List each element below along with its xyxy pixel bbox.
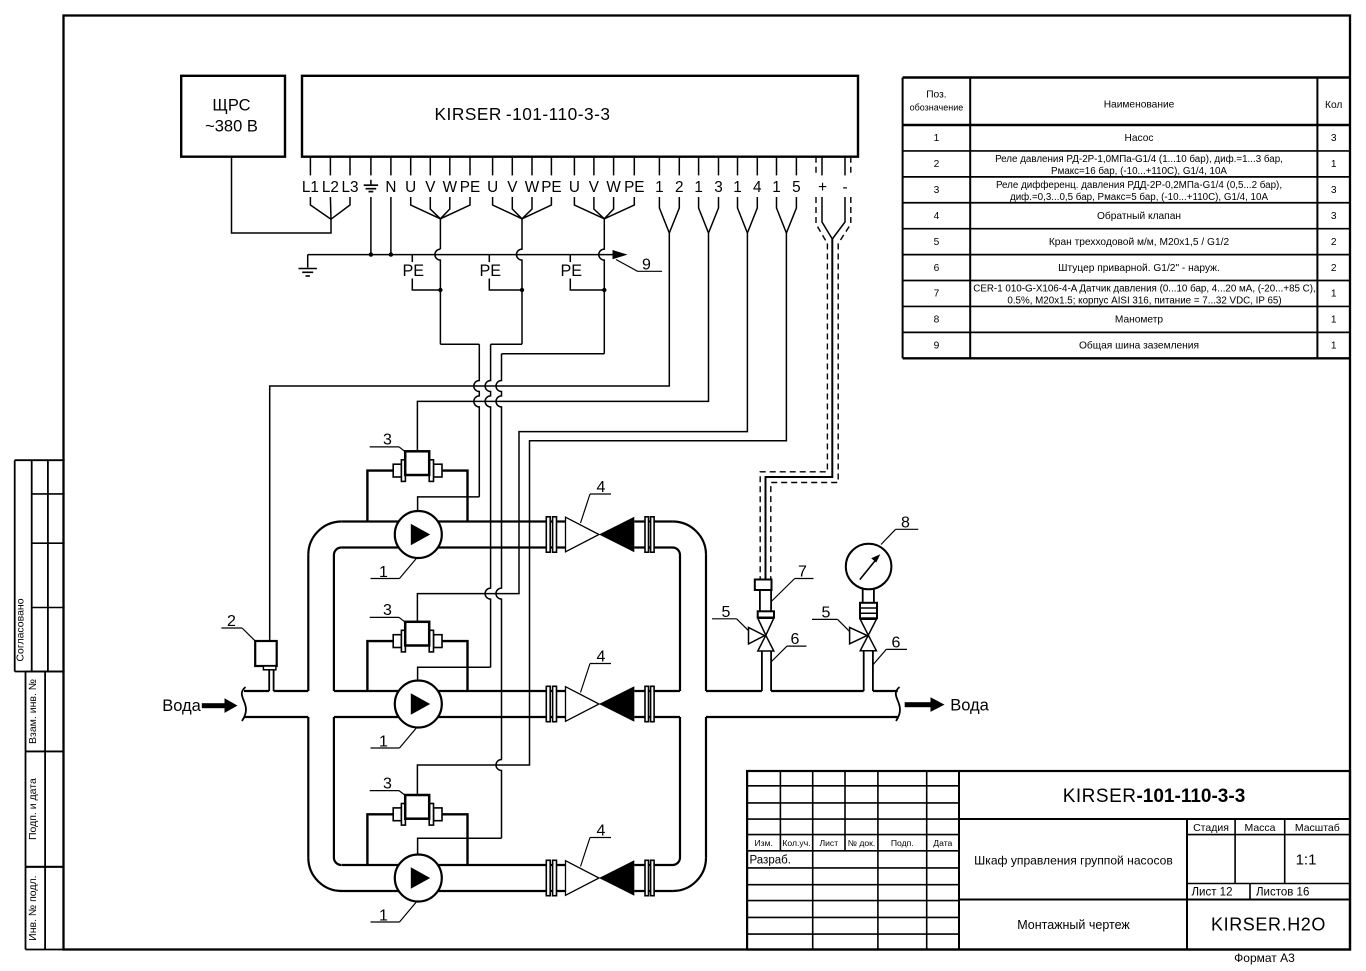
svg-text:Стадия: Стадия bbox=[1193, 822, 1229, 834]
svg-text:Подп. и дата: Подп. и дата bbox=[27, 778, 39, 840]
svg-text:6: 6 bbox=[892, 635, 901, 652]
svg-text:4: 4 bbox=[753, 179, 762, 196]
svg-text:Реле дифференц. давления РДД-2: Реле дифференц. давления РДД-2Р-0,2МПа-G… bbox=[996, 180, 1282, 191]
svg-text:W: W bbox=[525, 179, 540, 196]
svg-text:обозначение: обозначение bbox=[910, 103, 964, 113]
svg-text:3: 3 bbox=[714, 179, 723, 196]
svg-text:2: 2 bbox=[1331, 237, 1337, 248]
svg-text:Масса: Масса bbox=[1244, 822, 1275, 834]
svg-text:Листов 16: Листов 16 bbox=[1256, 886, 1309, 898]
svg-text:W: W bbox=[443, 179, 458, 196]
svg-text:Разраб.: Разраб. bbox=[750, 854, 791, 866]
svg-text:1: 1 bbox=[772, 179, 781, 196]
svg-text:5: 5 bbox=[822, 605, 831, 622]
svg-text:PE: PE bbox=[560, 262, 582, 280]
svg-text:V: V bbox=[589, 179, 600, 196]
svg-text:L1: L1 bbox=[302, 179, 319, 196]
svg-text:Реле давления РД-2Р-1,0МПа-G1/: Реле давления РД-2Р-1,0МПа-G1/4 (1...10 … bbox=[995, 154, 1283, 165]
svg-text:7: 7 bbox=[798, 564, 807, 581]
svg-text:Кран трехходовой м/м, М20х1,5: Кран трехходовой м/м, М20х1,5 / G1/2 bbox=[1049, 237, 1230, 248]
svg-text:1: 1 bbox=[1331, 159, 1337, 170]
svg-text:Штуцер приварной. G1/2" - нару: Штуцер приварной. G1/2" - наруж. bbox=[1058, 263, 1220, 274]
svg-text:Лист: Лист bbox=[819, 838, 838, 848]
svg-text:7: 7 bbox=[934, 289, 940, 300]
svg-text:W: W bbox=[606, 179, 621, 196]
svg-text:V: V bbox=[425, 179, 436, 196]
svg-text:Инв. № подл.: Инв. № подл. bbox=[27, 875, 39, 940]
svg-text:L3: L3 bbox=[341, 179, 358, 196]
svg-text:Поз.: Поз. bbox=[926, 90, 946, 101]
svg-text:PE: PE bbox=[624, 179, 644, 196]
svg-text:1: 1 bbox=[1331, 315, 1337, 326]
svg-text:№ док.: № док. bbox=[848, 838, 876, 848]
svg-text:Кол: Кол bbox=[1325, 100, 1342, 111]
svg-text:3: 3 bbox=[383, 775, 392, 792]
svg-text:3: 3 bbox=[1331, 133, 1337, 144]
svg-text:Монтажный чертеж: Монтажный чертеж bbox=[1017, 918, 1130, 932]
svg-text:2: 2 bbox=[934, 159, 940, 170]
svg-text:PE: PE bbox=[402, 262, 424, 280]
svg-text:9: 9 bbox=[934, 341, 940, 352]
svg-text:Рмакс=16 бар, (-10...+110С), G: Рмакс=16 бар, (-10...+110С), G1/4, 10А bbox=[1051, 166, 1227, 177]
svg-text:1: 1 bbox=[733, 179, 742, 196]
svg-text:-: - bbox=[842, 179, 847, 196]
svg-text:Взам. инв. №: Взам. инв. № bbox=[27, 679, 39, 744]
svg-text:~380 В: ~380 В bbox=[205, 118, 258, 136]
svg-text:4: 4 bbox=[597, 648, 606, 665]
svg-text:U: U bbox=[405, 179, 416, 196]
svg-text:8: 8 bbox=[901, 514, 910, 531]
svg-text:5: 5 bbox=[722, 604, 731, 621]
svg-text:1: 1 bbox=[1331, 289, 1337, 300]
svg-text:9: 9 bbox=[642, 256, 651, 273]
svg-text:Общая шина заземления: Общая шина заземления bbox=[1079, 340, 1199, 352]
svg-text:Манометр: Манометр bbox=[1115, 315, 1164, 326]
svg-text:5: 5 bbox=[934, 237, 940, 248]
svg-text:L2: L2 bbox=[322, 179, 339, 196]
svg-text:Насос: Насос bbox=[1125, 133, 1154, 144]
svg-text:1: 1 bbox=[934, 133, 940, 144]
svg-text:1: 1 bbox=[379, 733, 388, 750]
svg-text:4: 4 bbox=[597, 822, 606, 839]
svg-text:PE: PE bbox=[460, 179, 480, 196]
svg-text:1: 1 bbox=[655, 179, 664, 196]
svg-text:1: 1 bbox=[694, 179, 703, 196]
svg-text:KIRSER -101-110-3-3: KIRSER -101-110-3-3 bbox=[435, 104, 611, 124]
svg-text:Формат А3: Формат А3 bbox=[1234, 951, 1295, 965]
svg-text:CER-1 010-G-X106-4-A Датчик да: CER-1 010-G-X106-4-A Датчик давления (0.… bbox=[973, 283, 1316, 294]
svg-text:2: 2 bbox=[675, 179, 684, 196]
svg-text:1:1: 1:1 bbox=[1296, 852, 1317, 869]
svg-text:0.5%, М20х1.5; корпус AISI 316: 0.5%, М20х1.5; корпус AISI 316, питание … bbox=[1007, 295, 1281, 306]
svg-text:U: U bbox=[487, 179, 498, 196]
svg-text:PE: PE bbox=[541, 179, 561, 196]
svg-text:1: 1 bbox=[379, 564, 388, 581]
svg-text:6: 6 bbox=[934, 263, 940, 274]
svg-text:3: 3 bbox=[934, 185, 940, 196]
svg-text:3: 3 bbox=[1331, 185, 1337, 196]
svg-text:диф.=0,3...0,5 бар, Рмакс=5 ба: диф.=0,3...0,5 бар, Рмакс=5 бар, (-10...… bbox=[1010, 192, 1268, 203]
svg-text:2: 2 bbox=[1331, 263, 1337, 274]
svg-text:8: 8 bbox=[934, 315, 940, 326]
svg-text:Наименование: Наименование bbox=[1104, 100, 1175, 111]
svg-text:1: 1 bbox=[379, 907, 388, 924]
svg-text:V: V bbox=[507, 179, 518, 196]
svg-text:Вода: Вода bbox=[950, 697, 989, 715]
svg-text:1: 1 bbox=[1331, 341, 1337, 352]
svg-text:3: 3 bbox=[383, 432, 392, 449]
svg-text:3: 3 bbox=[1331, 211, 1337, 222]
svg-text:Шкаф управления группой насосо: Шкаф управления группой насосов bbox=[974, 854, 1173, 868]
svg-text:3: 3 bbox=[383, 602, 392, 619]
svg-text:KIRSER-101-110-3-3: KIRSER-101-110-3-3 bbox=[1063, 786, 1246, 807]
svg-text:N: N bbox=[385, 179, 396, 196]
svg-text:U: U bbox=[569, 179, 580, 196]
svg-text:2: 2 bbox=[227, 613, 236, 630]
svg-text:Подп.: Подп. bbox=[891, 838, 914, 848]
svg-text:Кол.уч.: Кол.уч. bbox=[782, 838, 810, 848]
svg-text:6: 6 bbox=[791, 631, 800, 648]
svg-text:Обратный клапан: Обратный клапан bbox=[1097, 210, 1181, 222]
svg-text:4: 4 bbox=[597, 479, 606, 496]
svg-text:ЩРС: ЩРС bbox=[212, 97, 250, 115]
svg-text:4: 4 bbox=[934, 211, 940, 222]
svg-text:PE: PE bbox=[479, 262, 501, 280]
svg-text:Согласовано: Согласовано bbox=[15, 598, 27, 661]
svg-text:Изм.: Изм. bbox=[754, 838, 772, 848]
svg-text:Масштаб: Масштаб bbox=[1295, 822, 1340, 834]
svg-text:5: 5 bbox=[792, 179, 801, 196]
svg-text:Лист 12: Лист 12 bbox=[1192, 886, 1233, 898]
svg-text:+: + bbox=[818, 179, 827, 196]
svg-text:Дата: Дата bbox=[933, 838, 952, 848]
svg-text:Вода: Вода bbox=[162, 697, 201, 715]
svg-text:KIRSER.H2O: KIRSER.H2O bbox=[1211, 915, 1326, 935]
